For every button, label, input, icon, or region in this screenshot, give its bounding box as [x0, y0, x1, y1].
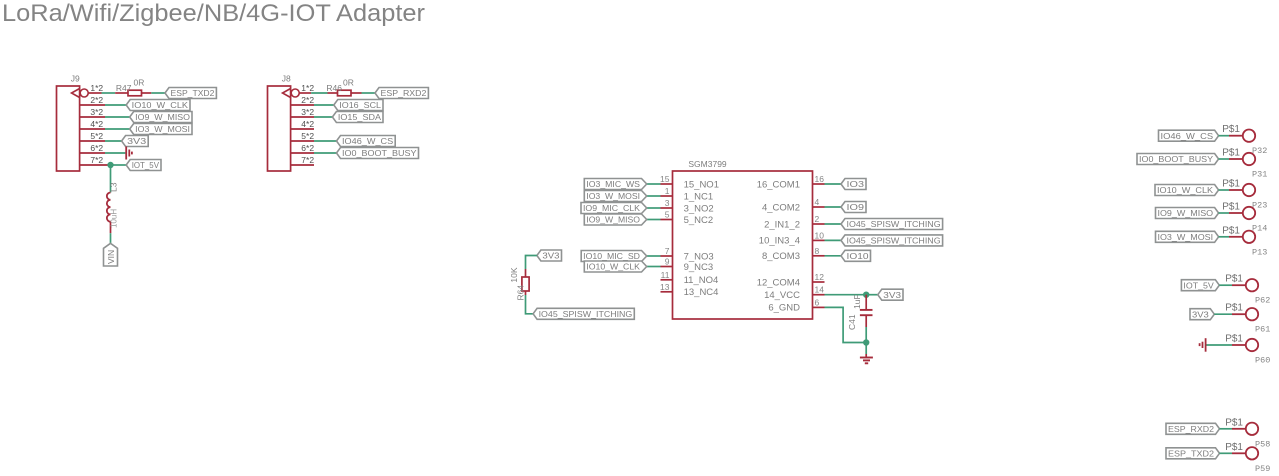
svg-text:1*2: 1*2	[90, 83, 103, 93]
svg-text:6_GND: 6_GND	[768, 303, 800, 314]
net label IO0_BOOT_BUSY	[337, 148, 419, 159]
svg-text:15: 15	[660, 174, 670, 184]
net label 3V3	[537, 250, 562, 261]
svg-text:P59: P59	[1255, 464, 1270, 474]
pin label 6_GND	[768, 303, 800, 314]
wire	[299, 92, 311, 94]
pin 5 stub	[661, 210, 673, 220]
resistor R46 0R	[326, 78, 361, 96]
wire	[866, 294, 878, 296]
pin 12 stub	[813, 272, 825, 282]
wire	[291, 152, 314, 154]
wire	[80, 164, 111, 166]
svg-text:1uF: 1uF	[852, 294, 862, 309]
wire	[1219, 189, 1229, 191]
wire	[311, 92, 327, 94]
svg-text:P$1: P$1	[1222, 225, 1240, 236]
wire	[647, 266, 661, 268]
svg-text:R47: R47	[116, 83, 132, 93]
wire	[314, 152, 337, 154]
wire	[291, 164, 314, 166]
wire	[1219, 236, 1229, 238]
svg-text:4: 4	[815, 197, 820, 207]
pad P32	[1222, 124, 1267, 156]
svg-text:VIN: VIN	[106, 250, 116, 264]
svg-text:IO45_SPISW_ITCHING: IO45_SPISW_ITCHING	[847, 236, 941, 246]
wire	[865, 343, 867, 355]
svg-text:7: 7	[665, 246, 670, 256]
svg-text:6*2: 6*2	[90, 143, 103, 153]
net label VIN	[104, 243, 118, 266]
svg-text:4*2: 4*2	[90, 119, 103, 129]
svg-text:11: 11	[661, 270, 670, 280]
pin label 13_NC4	[684, 287, 719, 298]
wire	[80, 140, 105, 142]
svg-text:P61: P61	[1255, 325, 1270, 335]
ground symbol	[1200, 338, 1206, 352]
svg-text:R64: R64	[515, 285, 525, 301]
pin 1 stub	[661, 186, 673, 196]
net label IO10_W_CLK	[1155, 185, 1219, 196]
inductor L3	[107, 182, 119, 233]
J9 pin name 2*2	[90, 95, 103, 105]
pad P58	[1225, 417, 1270, 449]
svg-text:IO46_W_CS: IO46_W_CS	[342, 136, 394, 146]
wire	[105, 104, 126, 106]
net label IO46_W_CS	[1159, 130, 1219, 141]
svg-text:ESP_RXD2: ESP_RXD2	[381, 88, 427, 98]
pin label 15_NO1	[684, 179, 719, 190]
net label ESP_RXD2	[1166, 423, 1220, 434]
svg-text:14_VCC: 14_VCC	[764, 290, 800, 301]
resistor R47 0R	[115, 78, 151, 96]
svg-text:6*2: 6*2	[301, 143, 314, 153]
svg-text:IO9_W_MISO: IO9_W_MISO	[135, 112, 190, 122]
pin label 8_COM3	[762, 251, 800, 262]
J8 pin name 6*2	[301, 143, 314, 153]
svg-text:15_NO1: 15_NO1	[684, 179, 719, 190]
wire	[647, 207, 661, 209]
svg-text:J9: J9	[71, 74, 80, 84]
pin 13 stub	[660, 282, 672, 292]
svg-text:IO10_W_CLK: IO10_W_CLK	[586, 262, 640, 272]
net label IOT_5V	[126, 160, 161, 171]
wire	[88, 92, 101, 94]
svg-text:P$1: P$1	[1222, 179, 1240, 190]
wire	[110, 165, 112, 193]
wire	[80, 116, 105, 118]
net label 3V3	[122, 136, 149, 147]
connector J9	[57, 74, 81, 172]
pin label 7_NO3	[684, 251, 714, 262]
net label IO3_W_MOSI	[584, 191, 646, 202]
svg-text:P$1: P$1	[1225, 417, 1243, 428]
pin 9 stub	[661, 257, 673, 267]
pin 15 stub	[660, 174, 672, 184]
svg-text:3V3: 3V3	[542, 251, 559, 261]
wire	[105, 152, 125, 154]
net label IO16_SCL	[334, 100, 383, 111]
wire	[647, 183, 661, 185]
pin 2 stub	[813, 214, 825, 224]
pad P14	[1222, 202, 1267, 234]
svg-text:IO9_W_MISO: IO9_W_MISO	[1158, 208, 1214, 218]
resistor R64 10K	[509, 267, 529, 300]
wire	[291, 104, 314, 106]
pin 10 stub	[813, 230, 825, 240]
pad P31	[1222, 148, 1267, 180]
J9 pin name 5*2	[90, 131, 103, 141]
pin label 9_NC3	[684, 262, 714, 273]
wire	[526, 256, 537, 270]
wire	[825, 307, 867, 342]
J8 pin name 5*2	[301, 131, 314, 141]
wire	[314, 140, 337, 142]
svg-text:IOT_5V: IOT_5V	[1183, 280, 1214, 290]
svg-text:ESP_TXD2: ESP_TXD2	[171, 88, 215, 98]
pin label 1_NC1	[684, 191, 714, 202]
wire	[1219, 212, 1229, 214]
svg-text:P60: P60	[1255, 356, 1270, 366]
svg-text:5: 5	[665, 210, 670, 220]
net label IO10_W_CLK	[126, 100, 190, 111]
svg-text:5_NC2: 5_NC2	[684, 215, 714, 226]
net label IO45_SPISW_ITCHING	[533, 308, 634, 319]
svg-text:IO16_SCL: IO16_SCL	[339, 100, 381, 110]
svg-text:3V3: 3V3	[127, 136, 146, 146]
svg-text:IOT_5V: IOT_5V	[132, 160, 160, 170]
svg-text:3: 3	[665, 198, 670, 208]
net label IO3_W_MOSI	[1156, 231, 1219, 242]
svg-text:11_NO4: 11_NO4	[684, 275, 719, 286]
svg-text:IO10_W_CLK: IO10_W_CLK	[132, 100, 189, 110]
net label IO9_W_MISO	[130, 112, 192, 123]
net label IO10_MIC_SD	[581, 251, 647, 262]
pin label 5_NC2	[684, 215, 714, 226]
svg-text:7*2: 7*2	[301, 155, 314, 165]
svg-text:IO10_MIC_SD: IO10_MIC_SD	[583, 251, 640, 261]
svg-text:IO3: IO3	[847, 179, 865, 189]
net label IO0_BOOT_BUSY	[1137, 154, 1219, 165]
pad P62	[1225, 274, 1270, 306]
svg-text:3*2: 3*2	[301, 107, 314, 117]
wire	[110, 233, 112, 243]
svg-text:7_NO3: 7_NO3	[684, 251, 714, 262]
pin 7 stub	[661, 246, 673, 256]
pin label 2_IN1_2	[764, 219, 800, 230]
pad P61	[1225, 303, 1270, 335]
svg-text:P$1: P$1	[1222, 124, 1240, 135]
title text	[2, 0, 425, 27]
svg-text:12_COM4: 12_COM4	[757, 277, 800, 288]
svg-text:9: 9	[665, 257, 670, 267]
net label 3V3	[1190, 309, 1214, 320]
J8 pin 1 marker	[283, 89, 300, 98]
wire	[1220, 452, 1233, 454]
svg-text:IO3_W_MOSI: IO3_W_MOSI	[586, 191, 640, 201]
pin 6 stub	[813, 297, 825, 307]
net label IO45_SPISW_ITCHING	[841, 219, 943, 230]
wire	[825, 206, 842, 208]
net label IO3_W_MOSI	[130, 124, 192, 135]
svg-text:2_IN1_2: 2_IN1_2	[764, 219, 800, 230]
svg-text:4_COM2: 4_COM2	[762, 202, 800, 213]
svg-text:3*2: 3*2	[90, 107, 103, 117]
svg-text:7*2: 7*2	[90, 155, 103, 165]
wire	[80, 104, 105, 106]
wire	[825, 183, 842, 185]
svg-text:P14: P14	[1252, 224, 1267, 234]
svg-text:2*2: 2*2	[90, 95, 103, 105]
pin label 3_NO2	[684, 203, 714, 214]
wire	[362, 92, 376, 94]
svg-text:IO45_SPISW_ITCHING: IO45_SPISW_ITCHING	[539, 309, 633, 319]
svg-text:IO9_W_MISO: IO9_W_MISO	[586, 215, 640, 225]
svg-text:1_NC1: 1_NC1	[684, 191, 714, 202]
J9 pin 1 marker	[72, 89, 89, 98]
svg-text:8_COM3: 8_COM3	[762, 251, 800, 262]
wire	[151, 92, 165, 94]
J9 pin name 1*2	[90, 83, 103, 93]
wire	[80, 152, 105, 154]
wire	[291, 140, 314, 142]
pad P59	[1225, 442, 1270, 474]
svg-text:IO45_SPISW_ITCHING: IO45_SPISW_ITCHING	[847, 219, 941, 229]
wire	[314, 104, 334, 106]
wire	[526, 295, 534, 314]
pin 14 stub	[813, 285, 825, 295]
svg-text:IO15_SDA: IO15_SDA	[338, 112, 381, 122]
net label IO9_MIC_CLK	[581, 203, 647, 214]
svg-text:IO3_W_MOSI: IO3_W_MOSI	[1158, 232, 1214, 242]
svg-text:8: 8	[815, 246, 820, 256]
svg-text:IO10_W_CLK: IO10_W_CLK	[1157, 185, 1213, 195]
wire	[102, 92, 116, 94]
svg-text:10K: 10K	[509, 267, 519, 282]
svg-text:3V3: 3V3	[1192, 309, 1209, 319]
net label IO46_W_CS	[337, 136, 396, 147]
wire	[1219, 135, 1229, 137]
net label IO9_W_MISO	[584, 214, 646, 225]
svg-text:IO10: IO10	[847, 251, 869, 261]
svg-text:4*2: 4*2	[301, 119, 314, 129]
svg-text:IO46_W_CS: IO46_W_CS	[1161, 131, 1214, 141]
pin label 14_VCC	[764, 290, 800, 301]
pad P13	[1222, 225, 1267, 257]
svg-text:P62: P62	[1255, 296, 1270, 306]
net label IO10	[841, 250, 871, 261]
svg-text:P$1: P$1	[1222, 148, 1240, 159]
net label IO3_MIC_WS	[584, 179, 646, 190]
wire	[1220, 428, 1233, 430]
svg-text:P$1: P$1	[1225, 274, 1243, 285]
net label ESP_TXD2	[1166, 448, 1220, 459]
pin label 10_IN3_4	[759, 236, 800, 247]
svg-text:6: 6	[815, 297, 820, 307]
pin 11 stub	[661, 270, 673, 280]
wire	[1207, 344, 1233, 346]
svg-text:16_COM1: 16_COM1	[757, 179, 800, 190]
net label ESP_RXD2	[375, 88, 428, 99]
J9 pin name 6*2	[90, 143, 103, 153]
value label 10uH	[110, 209, 119, 228]
svg-text:L3: L3	[109, 182, 119, 192]
wire	[647, 195, 661, 197]
J9 pin name 4*2	[90, 119, 103, 129]
J8 pin name 1*2	[301, 83, 314, 93]
J8 pin name 7*2	[301, 155, 314, 165]
pin label 16_COM1	[757, 179, 800, 190]
wire	[1219, 284, 1232, 286]
svg-text:2: 2	[815, 214, 820, 224]
svg-text:IO9_MIC_CLK: IO9_MIC_CLK	[583, 203, 640, 213]
svg-text:P$1: P$1	[1222, 202, 1240, 213]
svg-text:3_NO2: 3_NO2	[684, 203, 714, 214]
svg-text:5*2: 5*2	[90, 131, 103, 141]
net label IO45_SPISW_ITCHING	[841, 235, 943, 246]
svg-text:3V3: 3V3	[883, 290, 901, 300]
svg-text:1: 1	[665, 186, 670, 196]
svg-text:SGM3799: SGM3799	[688, 159, 727, 169]
wire	[314, 116, 332, 118]
wire	[291, 116, 314, 118]
svg-text:ESP_RXD2: ESP_RXD2	[1168, 424, 1214, 434]
net label ESP_TXD2	[165, 88, 216, 99]
net label IO9_W_MISO	[1156, 208, 1219, 219]
net label IO9	[841, 202, 866, 213]
svg-text:P$1: P$1	[1225, 334, 1243, 345]
svg-text:P31: P31	[1252, 170, 1267, 180]
svg-text:10: 10	[815, 230, 825, 240]
wire	[825, 255, 842, 257]
wire	[111, 164, 127, 166]
svg-text:1*2: 1*2	[301, 83, 314, 93]
svg-text:P58: P58	[1255, 439, 1270, 449]
wire	[1214, 313, 1232, 315]
svg-text:10_IN3_4: 10_IN3_4	[759, 236, 800, 247]
svg-text:IO3_W_MOSI: IO3_W_MOSI	[135, 124, 190, 134]
svg-text:IO0_BOOT_BUSY: IO0_BOOT_BUSY	[1139, 154, 1213, 164]
junction	[863, 339, 869, 345]
pad P23	[1222, 179, 1267, 211]
pin label 12_COM4	[757, 277, 800, 288]
svg-text:13: 13	[660, 282, 670, 292]
svg-text:12: 12	[815, 272, 825, 282]
wire	[105, 140, 122, 142]
svg-text:IO0_BOOT_BUSY: IO0_BOOT_BUSY	[342, 148, 417, 158]
svg-text:16: 16	[815, 174, 825, 184]
wire	[825, 294, 867, 296]
wire	[647, 255, 661, 257]
svg-text:10uH: 10uH	[110, 209, 119, 228]
pad P60	[1225, 334, 1270, 366]
J9 pin name 7*2	[90, 155, 103, 165]
wire	[825, 239, 842, 241]
J8 pin name 4*2	[301, 119, 314, 129]
svg-text:IO9: IO9	[847, 202, 865, 212]
J8 pin name 3*2	[301, 107, 314, 117]
svg-text:IO3_MIC_WS: IO3_MIC_WS	[586, 179, 640, 189]
svg-text:P13: P13	[1252, 247, 1267, 257]
svg-text:0R: 0R	[134, 78, 145, 88]
pin label 11_NO4	[684, 275, 719, 286]
wire	[80, 128, 105, 130]
svg-text:LoRa/Wifi/Zigbee/NB/4G-IOT Ada: LoRa/Wifi/Zigbee/NB/4G-IOT Adapter	[2, 0, 425, 27]
svg-text:9_NC3: 9_NC3	[684, 262, 714, 273]
junction	[863, 292, 869, 298]
pin 16 stub	[813, 174, 825, 184]
wire	[825, 223, 842, 225]
wire	[105, 128, 130, 130]
pin 4 stub	[813, 197, 825, 207]
junction	[107, 162, 113, 168]
wire	[647, 219, 661, 221]
svg-text:5*2: 5*2	[301, 131, 314, 141]
wire	[1219, 158, 1229, 160]
wire	[291, 128, 314, 130]
svg-text:R46: R46	[326, 83, 342, 93]
net label IOT_5V	[1181, 280, 1219, 291]
svg-text:0R: 0R	[343, 78, 354, 88]
wire	[105, 116, 130, 118]
net label IO10_W_CLK	[584, 261, 646, 272]
capacitor C41 1uF	[847, 294, 873, 330]
ground symbol	[126, 147, 132, 160]
svg-text:C41: C41	[847, 314, 857, 330]
connector J8	[268, 74, 292, 172]
pin 3 stub	[661, 198, 673, 208]
op-amp U1 SGM3799	[673, 159, 813, 319]
svg-text:J8: J8	[282, 74, 291, 84]
net label 3V3	[878, 289, 903, 300]
svg-text:P$1: P$1	[1225, 442, 1243, 453]
svg-text:14: 14	[815, 285, 825, 295]
net label IO15_SDA	[332, 112, 383, 123]
svg-text:ESP_TXD2: ESP_TXD2	[1168, 449, 1214, 459]
wire	[865, 327, 867, 343]
ground symbol	[860, 354, 873, 363]
J8 pin name 2*2	[301, 95, 314, 105]
svg-text:13_NC4: 13_NC4	[684, 287, 719, 298]
svg-text:P$1: P$1	[1225, 303, 1243, 314]
pin label 4_COM2	[762, 202, 800, 213]
J9 pin name 3*2	[90, 107, 103, 117]
net label IO3	[841, 179, 866, 190]
pin 8 stub	[813, 246, 825, 256]
svg-text:2*2: 2*2	[301, 95, 314, 105]
